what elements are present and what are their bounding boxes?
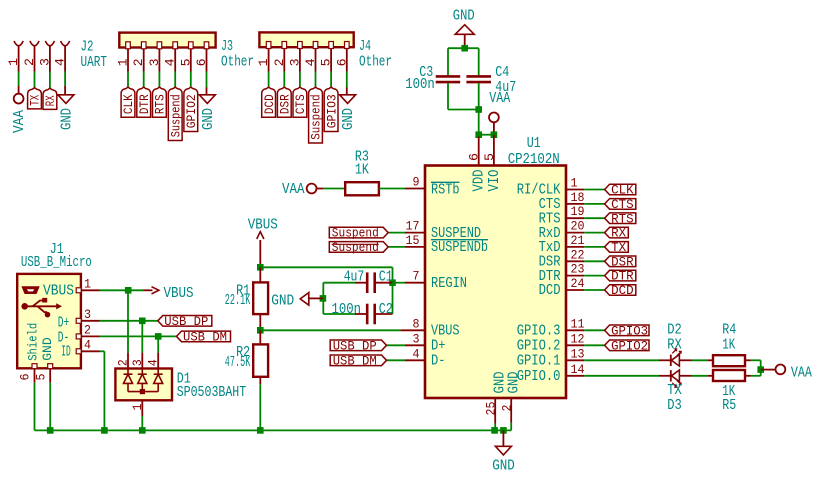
net label USB_DP right <box>330 340 386 351</box>
svg-text:Suspend: Suspend <box>332 240 379 255</box>
wire J2 pin4 <box>64 72 66 87</box>
resistor R4 <box>708 359 713 361</box>
svg-text:DTR: DTR <box>137 94 152 114</box>
svg-text:Other: Other <box>359 55 392 71</box>
net label Suspend <box>168 87 182 140</box>
LED D3 <box>659 375 670 377</box>
svg-text:17: 17 <box>406 220 420 234</box>
net label USB_DM right <box>330 355 386 366</box>
wire pin21 <box>566 246 584 248</box>
resistor R5 <box>708 375 713 377</box>
power VAA right <box>761 369 776 371</box>
svg-text:GPIO2: GPIO2 <box>184 94 199 128</box>
svg-text:CLK: CLK <box>611 183 634 198</box>
svg-text:4: 4 <box>54 58 68 66</box>
junction pin25 <box>491 427 498 434</box>
svg-text:J4: J4 <box>359 39 371 55</box>
svg-text:RX: RX <box>667 338 682 354</box>
svg-text:GPIO.1: GPIO.1 <box>517 354 561 370</box>
junction VAA right <box>757 366 764 373</box>
wire pin13 GPIO.1 <box>566 359 584 361</box>
svg-text:20: 20 <box>571 220 585 234</box>
svg-text:23: 23 <box>571 263 585 277</box>
svg-text:USB_DP: USB_DP <box>333 338 377 353</box>
svg-text:REGIN: REGIN <box>431 276 467 292</box>
U1 pin 2 wire <box>510 398 512 423</box>
svg-text:USB_B_Micro: USB_B_Micro <box>21 255 92 271</box>
net label RX <box>605 227 629 238</box>
wire down to VDD <box>478 110 480 137</box>
wire to pin7 <box>393 282 406 284</box>
J1 pin stubs <box>76 288 81 293</box>
svg-text:Shield: Shield <box>25 323 40 361</box>
wire pin20 <box>566 232 584 234</box>
svg-text:VBUS: VBUS <box>248 218 278 234</box>
junction VBUS D1 <box>125 287 132 294</box>
pin 5 wire VIO <box>493 135 495 166</box>
svg-text:13: 13 <box>571 347 585 361</box>
svg-text:GPIO2: GPIO2 <box>611 338 648 353</box>
wire to C3 top <box>447 48 449 75</box>
wire pin17 <box>388 232 405 234</box>
junction R2 rail <box>257 427 264 434</box>
net label GPIO3 <box>605 325 649 336</box>
resistor R2 <box>259 330 261 344</box>
svg-text:USB_DP: USB_DP <box>164 314 208 329</box>
svg-text:100n: 100n <box>405 77 435 93</box>
J4 wires <box>268 49 270 72</box>
svg-text:C4: C4 <box>495 65 509 81</box>
svg-text:J3: J3 <box>221 39 233 55</box>
wire J2 pin3 <box>49 72 51 89</box>
svg-text:21: 21 <box>571 234 585 248</box>
net label Suspendb pin15 <box>329 242 388 253</box>
svg-text:2: 2 <box>500 405 514 412</box>
wire to C4 top <box>478 48 480 75</box>
svg-text:3: 3 <box>131 359 145 366</box>
svg-text:GPIO.0: GPIO.0 <box>517 369 561 385</box>
svg-text:DSR: DSR <box>611 254 634 269</box>
wire D2 to R4 <box>692 359 709 361</box>
net label DCD <box>262 87 276 117</box>
svg-text:9: 9 <box>413 176 420 190</box>
svg-text:VAA: VAA <box>12 110 28 133</box>
wire pin18 <box>566 203 584 205</box>
capacitor C3 <box>436 75 461 78</box>
net label GPIO2 <box>605 340 649 351</box>
svg-text:25: 25 <box>484 402 498 416</box>
ground left of caps <box>309 297 323 299</box>
svg-text:USB_DM: USB_DM <box>183 330 227 345</box>
resistor R1 <box>259 267 261 282</box>
wire pin11 <box>566 329 584 331</box>
connector J3 body <box>119 33 215 48</box>
svg-text:1K: 1K <box>722 338 735 354</box>
wire junction to pin8 <box>260 329 400 331</box>
svg-text:Other: Other <box>221 55 254 71</box>
junction gnd stem <box>500 427 507 434</box>
svg-text:1: 1 <box>571 177 578 191</box>
wire R4 R5 join <box>760 360 762 376</box>
net label CTS <box>605 199 636 210</box>
wire pin22 <box>566 260 584 262</box>
wire R3 to pin9 <box>379 188 405 190</box>
svg-text:CP2102N: CP2102N <box>508 152 560 168</box>
wire C2 right up <box>392 283 394 314</box>
svg-text:6: 6 <box>19 374 33 381</box>
wire J2 pin1 <box>18 72 20 87</box>
svg-text:D+: D+ <box>58 315 70 331</box>
svg-text:D-: D- <box>431 354 446 370</box>
net label CTS <box>293 87 307 117</box>
wire C3 bottom <box>447 83 449 109</box>
svg-text:USB_DM: USB_DM <box>333 353 377 368</box>
svg-text:GND: GND <box>453 8 475 24</box>
wire D3 to R5 <box>692 375 709 377</box>
svg-text:DCD: DCD <box>539 283 561 299</box>
svg-text:47.5K: 47.5K <box>225 355 251 371</box>
ground at J3 pin6 <box>206 88 208 95</box>
svg-text:RX: RX <box>611 226 626 241</box>
junction R1 R2 <box>257 327 264 334</box>
svg-text:DTR: DTR <box>611 269 634 284</box>
svg-text:2: 2 <box>117 359 131 366</box>
net label USB_DP left <box>158 316 212 327</box>
ground at J2 pin4 <box>64 86 66 95</box>
U1 pin 25 wire <box>494 398 496 424</box>
junction top gnd <box>461 45 468 52</box>
svg-text:DSR: DSR <box>278 94 293 114</box>
wire pin19 <box>566 217 584 219</box>
wire J2 pin2 <box>34 72 36 89</box>
wire VBUS row to REGIN <box>260 266 392 268</box>
svg-text:SUSPENDb: SUSPENDb <box>431 240 488 256</box>
ground at J4 pin6 <box>346 88 348 95</box>
junction caps bottom <box>475 106 482 113</box>
wire pin23 <box>566 275 584 277</box>
connector J2 <box>14 41 23 46</box>
capacitor C4 <box>466 75 491 78</box>
svg-text:VAA: VAA <box>282 182 305 198</box>
junction D+ D1 <box>139 318 146 325</box>
J4 pin stubs <box>266 42 271 49</box>
svg-text:GND: GND <box>201 108 217 130</box>
wire J1 ID pin4 <box>81 350 100 352</box>
wire pin12 <box>566 344 584 346</box>
wire J1 shield pin6 <box>34 368 36 382</box>
svg-text:CTS: CTS <box>611 197 634 212</box>
svg-text:Suspend: Suspend <box>168 94 183 137</box>
wire J1 D+ pin3 <box>81 320 100 322</box>
wire pin1 <box>566 189 584 191</box>
svg-text:CLK: CLK <box>121 94 136 114</box>
wire J1 VBUS pin1 <box>81 289 100 291</box>
power VBUS arrow right <box>144 289 153 291</box>
svg-text:14: 14 <box>571 363 585 377</box>
svg-text:24: 24 <box>571 277 585 291</box>
net label DSR <box>277 87 291 117</box>
svg-text:7: 7 <box>413 270 420 284</box>
wire J1 gnd pin5 <box>49 368 51 382</box>
svg-text:GPIO3: GPIO3 <box>611 323 648 338</box>
wire between <box>479 134 494 136</box>
wire pin3 D+ <box>387 344 406 346</box>
gnd rail wire <box>35 429 495 431</box>
wire C4 bottom <box>478 83 480 109</box>
junction VBUS R1 <box>257 264 264 271</box>
svg-text:22.1K: 22.1K <box>225 293 251 309</box>
svg-text:2: 2 <box>84 324 91 338</box>
net label RTS <box>605 213 636 224</box>
svg-text:TX: TX <box>611 240 626 255</box>
svg-text:J2: J2 <box>81 40 94 56</box>
svg-text:ID: ID <box>61 345 70 361</box>
rail junctions <box>47 427 54 434</box>
svg-text:VAA: VAA <box>489 91 510 107</box>
svg-text:U1: U1 <box>527 136 541 152</box>
J3 wires <box>127 49 129 72</box>
junction VDD <box>475 131 482 138</box>
svg-text:R4: R4 <box>722 323 736 339</box>
net label DTR <box>605 270 636 281</box>
svg-text:TX: TX <box>667 383 682 399</box>
svg-text:VAA: VAA <box>791 365 812 381</box>
svg-text:D+: D+ <box>431 339 446 355</box>
svg-text:DCD: DCD <box>611 283 634 298</box>
svg-text:5: 5 <box>483 153 497 161</box>
svg-text:GND: GND <box>59 108 75 130</box>
wire caps left vertical <box>322 283 324 314</box>
junction VIO <box>491 131 498 138</box>
svg-text:5: 5 <box>34 374 48 381</box>
USB trident icon <box>21 303 28 310</box>
net label TX <box>28 88 42 109</box>
svg-text:GND: GND <box>341 108 357 130</box>
svg-text:100n: 100n <box>332 302 362 318</box>
net label CLK <box>605 184 636 195</box>
junction D- D1 <box>155 333 162 340</box>
svg-text:DCD: DCD <box>262 94 277 114</box>
svg-text:GPIO.3: GPIO.3 <box>517 324 561 340</box>
D1 pin1 wire <box>141 400 143 416</box>
svg-text:11: 11 <box>571 317 585 331</box>
net label Suspend <box>309 87 323 143</box>
net label GPIO3 <box>324 87 338 131</box>
svg-text:VBUS: VBUS <box>43 283 74 299</box>
wire pin14 GPIO.0 <box>566 375 584 377</box>
LED D2 <box>659 359 670 361</box>
svg-text:1: 1 <box>131 404 145 411</box>
D1 wires up <box>127 290 129 352</box>
J3 pin stubs <box>126 42 131 49</box>
pin 6 wire VDD <box>478 137 480 166</box>
wire pin24 <box>566 289 584 291</box>
net label RX <box>43 88 57 109</box>
svg-text:GPIO3: GPIO3 <box>324 94 339 128</box>
connector J1 body <box>17 274 81 368</box>
svg-text:3: 3 <box>38 58 52 66</box>
net label DCD <box>605 285 636 296</box>
net label DSR <box>605 256 636 267</box>
net label RTS <box>153 87 167 117</box>
wire pin15 <box>388 246 405 248</box>
svg-text:C2: C2 <box>379 302 393 318</box>
svg-text:Suspend: Suspend <box>332 226 379 241</box>
svg-text:8: 8 <box>413 317 420 331</box>
svg-text:D2: D2 <box>667 323 682 339</box>
svg-text:Suspend: Suspend <box>309 94 324 140</box>
wire VAA to R3 <box>323 188 345 190</box>
wire gnd to caps <box>448 47 479 49</box>
net label TX <box>605 242 629 253</box>
svg-text:GND: GND <box>40 337 55 361</box>
svg-text:R5: R5 <box>722 398 736 414</box>
svg-text:VBUS: VBUS <box>164 286 194 302</box>
connector J4 body <box>259 32 353 47</box>
svg-text:CTS: CTS <box>293 94 308 114</box>
svg-text:1K: 1K <box>355 162 369 178</box>
svg-text:VDD: VDD <box>472 170 488 192</box>
svg-text:12: 12 <box>571 332 585 346</box>
wire pin4 D- <box>387 359 406 361</box>
svg-text:4: 4 <box>147 359 161 366</box>
svg-text:SP0503BAHT: SP0503BAHT <box>177 385 247 401</box>
svg-text:VBUS: VBUS <box>431 324 460 340</box>
net label USB_DM left <box>177 331 231 342</box>
net label DTR <box>137 87 151 117</box>
svg-text:GND: GND <box>492 458 515 474</box>
svg-text:3: 3 <box>413 332 420 346</box>
svg-text:GND: GND <box>271 293 294 309</box>
svg-text:18: 18 <box>571 191 585 205</box>
svg-text:1: 1 <box>84 277 91 291</box>
svg-text:D3: D3 <box>667 398 682 414</box>
diode array D1 body <box>115 369 172 401</box>
svg-text:RTS: RTS <box>611 211 634 226</box>
net label GPIO2 <box>184 87 198 131</box>
svg-text:19: 19 <box>571 205 585 219</box>
svg-text:15: 15 <box>406 234 420 248</box>
svg-text:22: 22 <box>571 248 585 262</box>
D1 diodes <box>124 373 133 375</box>
rail to pin2 <box>495 429 512 431</box>
svg-text:TX: TX <box>28 95 43 106</box>
svg-text:RTS: RTS <box>153 94 168 114</box>
power VAA at J2 pin1 <box>18 86 20 94</box>
svg-text:RX: RX <box>43 95 58 106</box>
svg-text:GPIO.2: GPIO.2 <box>517 339 561 355</box>
svg-text:4: 4 <box>413 347 420 361</box>
svg-text:VIO: VIO <box>487 170 503 192</box>
IC U1 body <box>425 166 566 399</box>
junction REGIN <box>389 279 396 286</box>
svg-text:2: 2 <box>23 58 37 66</box>
ground bottom <box>502 430 504 446</box>
svg-text:6: 6 <box>468 153 482 161</box>
svg-text:1: 1 <box>7 58 21 66</box>
svg-text:UART: UART <box>81 55 108 71</box>
D1 internal bus <box>128 391 158 393</box>
junction caps gnd <box>320 295 327 302</box>
net label Suspend pin17 <box>329 227 388 238</box>
wire J1 D- pin2 <box>81 335 100 337</box>
svg-text:RSTb: RSTb <box>431 183 460 199</box>
net label CLK <box>121 87 135 117</box>
USB plug icon <box>23 287 39 293</box>
